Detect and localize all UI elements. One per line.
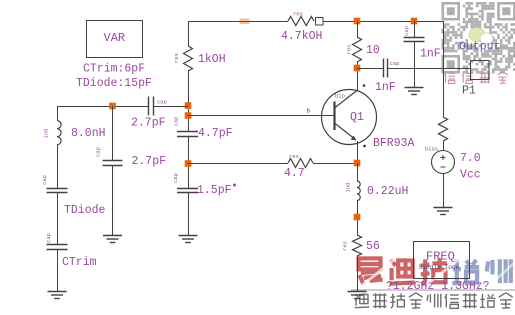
svg-text:BFR93A: BFR93A	[373, 137, 415, 150]
svg-text:4.7: 4.7	[284, 167, 305, 180]
svg-text:TDiode:15pF: TDiode:15pF	[76, 77, 152, 90]
label cap of CTrim	[45, 233, 52, 243]
svg-text:Vcc: Vcc	[460, 169, 481, 182]
junction collector output node	[354, 65, 361, 72]
svg-text:Single-Tone: Single-Tone	[419, 264, 460, 271]
wire 1nF shunt to ground	[414, 42, 416, 88]
label cap of 1nF shunt	[403, 26, 410, 36]
wire 1.5pF to ground	[188, 193, 190, 236]
wire top to 1kOH	[188, 21, 190, 46]
FREQ block box	[414, 242, 470, 279]
label res of 1kOH	[173, 53, 180, 63]
svg-text:bias: bias	[425, 146, 438, 153]
value label 2.7pF coupling	[131, 117, 166, 130]
svg-text:1nF: 1nF	[375, 81, 396, 94]
label bias of V source	[425, 146, 438, 153]
wire emitter net left	[188, 163, 288, 165]
svg-text:cap: cap	[173, 117, 180, 127]
label res of 56	[342, 241, 349, 251]
wire 0.22uH to 56	[357, 201, 359, 236]
capacitor 2.7pF shunt	[103, 161, 123, 166]
capacitor 1.5pF	[177, 189, 198, 193]
resistor 4.7kOH body	[288, 17, 314, 26]
resistor 4.7 body	[288, 159, 313, 168]
wire 1kOH to 4.7pF	[188, 71, 190, 132]
svg-text:CTrim:6pF: CTrim:6pF	[83, 63, 145, 76]
pin dot collector	[363, 84, 366, 87]
wire 10 to collector	[357, 62, 359, 90]
svg-text:2.7pF: 2.7pF	[131, 117, 166, 130]
svg-text:res: res	[293, 11, 303, 18]
wire top net left segment	[188, 21, 288, 23]
capacitor TDiode	[47, 189, 68, 193]
wire bias resistor to source	[443, 141, 445, 151]
ground below Vcc source	[434, 208, 453, 215]
svg-text:Output: Output	[459, 41, 500, 54]
tuning dot after 1.5pF	[233, 184, 236, 187]
junction collector supply	[354, 18, 361, 25]
svg-text:cap: cap	[45, 233, 52, 243]
svg-text:8.0nH: 8.0nH	[71, 127, 106, 140]
voltage source 7.0 Vcc	[432, 151, 455, 174]
junction emitter node	[354, 160, 361, 167]
junction base divider top	[185, 102, 192, 109]
capacitor CTrim	[47, 245, 68, 250]
label cap of 2.7pF coupling	[157, 99, 167, 106]
junction base node	[185, 112, 192, 119]
value label 4.7kOH	[281, 30, 322, 43]
value label BFR93A	[373, 137, 415, 150]
ground below 1nF shunt	[405, 88, 424, 95]
watermark WeChat icon	[469, 28, 493, 44]
resistor 56 body	[353, 235, 362, 256]
wire 2.7pF to base divider	[154, 106, 189, 108]
svg-text:Q1: Q1	[350, 111, 364, 124]
label res of 10	[346, 45, 353, 55]
sweep text	[386, 280, 490, 293]
label ind of 0.22uH	[345, 183, 352, 193]
wire junction to 2.7pF shunt	[112, 106, 114, 161]
ground below 1.5pF	[179, 236, 198, 243]
junction emitter bias node	[354, 214, 361, 221]
transistor Q1 base bar	[333, 102, 335, 131]
svg-text:VAR: VAR	[104, 31, 126, 45]
resistor bias body	[439, 117, 448, 141]
label Vcc	[460, 169, 481, 182]
svg-text:P1: P1	[462, 85, 476, 98]
watermark text 射频和天线设计专家	[355, 293, 513, 309]
watermark text 微信联系	[445, 72, 508, 84]
svg-text:1nF: 1nF	[420, 48, 441, 61]
port P1 symbol	[471, 61, 490, 80]
value label 0.22uH	[367, 185, 408, 198]
watermark QR code	[442, 2, 515, 74]
wire top net right segment	[323, 21, 443, 23]
watermark text 易迪拓培训	[359, 258, 514, 287]
VAR block box	[87, 21, 143, 58]
svg-text:1kOH: 1kOH	[198, 53, 226, 66]
svg-text:cap: cap	[95, 147, 102, 157]
svg-text:cap: cap	[403, 26, 410, 36]
svg-text:?1.2GHz 1.3GHz?: ?1.2GHz 1.3GHz?	[386, 280, 490, 293]
value label 1nF shunt	[420, 48, 441, 61]
label P1	[462, 85, 476, 98]
wire resonator left	[57, 106, 149, 108]
label FREQ	[426, 250, 455, 264]
svg-text:cap: cap	[390, 60, 400, 67]
watermark underline	[351, 289, 515, 291]
svg-text:res: res	[173, 53, 180, 63]
wire base net	[188, 115, 322, 117]
svg-text:res: res	[346, 45, 353, 55]
value label 1nF coupling	[375, 81, 396, 94]
svg-text:bip: bip	[335, 93, 345, 100]
capacitor 4.7pF	[177, 132, 198, 137]
wire to 1nF shunt	[414, 21, 416, 38]
inductor 8.0nH coil	[57, 121, 61, 145]
wire CTrim to ground	[57, 249, 59, 291]
var text TDiode:15pF	[76, 77, 152, 90]
wire output to port	[388, 68, 471, 70]
transistor Q1 collector stroke	[335, 90, 358, 108]
label res of 4.7	[289, 153, 299, 160]
label cap of TDiode	[41, 175, 48, 185]
label VAR	[104, 31, 126, 45]
svg-text:0.22uH: 0.22uH	[367, 185, 408, 198]
svg-text:56: 56	[366, 240, 380, 253]
label cap of 1.5pF	[172, 173, 179, 183]
value label 4.7	[284, 167, 305, 180]
value label 7.0	[460, 152, 481, 165]
wire 56 to ground	[357, 256, 359, 291]
label cap of 2.7pF shunt	[95, 147, 102, 157]
svg-text:7.0: 7.0	[460, 152, 481, 165]
svg-text:CTrim: CTrim	[62, 256, 97, 269]
resistor 10 body	[353, 37, 362, 62]
svg-text:4.7kOH: 4.7kOH	[281, 30, 322, 43]
svg-text:b: b	[307, 108, 311, 115]
label cap of 4.7pF	[173, 117, 180, 127]
wire 4.7pF to 1.5pF	[188, 136, 190, 188]
wire emitter net right	[313, 163, 357, 165]
wire base lead inside Q1	[322, 115, 335, 117]
wire top to 10 resistor	[357, 21, 359, 37]
svg-text:FREQ: FREQ	[426, 250, 455, 264]
label res of 4.7kOH	[293, 11, 303, 18]
svg-text:cap: cap	[172, 173, 179, 183]
svg-text:1.5pF: 1.5pF	[197, 184, 232, 197]
ground below 2.7pF shunt	[103, 236, 122, 243]
junction emitter divider tap	[185, 160, 192, 167]
transistor Q1 circle	[322, 90, 377, 145]
svg-text:cap: cap	[157, 99, 167, 106]
value label 1.5pF	[197, 184, 232, 197]
svg-text:TDiode: TDiode	[64, 204, 106, 217]
svg-text:cap: cap	[41, 175, 48, 185]
svg-text:4.7pF: 4.7pF	[198, 127, 233, 140]
svg-text:10: 10	[366, 44, 380, 57]
value label 8.0nH	[71, 127, 106, 140]
label cap of 1nF coupling	[390, 60, 400, 67]
junction resonator node	[109, 103, 116, 110]
value label 1kOH	[198, 53, 226, 66]
ground below CTrim	[48, 292, 67, 299]
ground below 56	[348, 292, 367, 299]
svg-text:ind: ind	[43, 129, 50, 139]
wire supply drop	[443, 21, 445, 117]
value label 2.7pF shunt	[132, 155, 167, 168]
wire 2.7pF shunt to ground	[112, 165, 114, 235]
capacitor 1nF coupling	[384, 59, 388, 78]
value label 56	[366, 240, 380, 253]
net label Output	[459, 41, 500, 54]
pin label b	[307, 108, 311, 115]
capacitor 1nF shunt	[404, 38, 425, 42]
transistor Q1 emitter stroke with arrow	[335, 123, 357, 141]
label Single-Tone	[419, 264, 460, 271]
inductor 0.22uH coil	[357, 181, 360, 201]
wire 8.0nH to TDiode	[57, 145, 59, 188]
wire source to ground	[443, 174, 445, 208]
wire TDiode to CTrim	[57, 193, 59, 245]
wire emitter to 0.22uH	[357, 163, 359, 181]
pin dot emitter	[363, 145, 366, 148]
value label CTrim	[62, 256, 97, 269]
wire top of 8.0nH	[57, 106, 59, 121]
wire output left	[357, 68, 384, 70]
value label 4.7pF	[198, 127, 233, 140]
junction supply filter	[411, 18, 418, 25]
svg-text:res: res	[289, 153, 299, 160]
label ind of 8.0nH	[43, 129, 50, 139]
value label TDiode	[64, 204, 106, 217]
pin square of resistor 4.7kOH	[316, 18, 324, 26]
capacitor 2.7pF coupling	[149, 97, 154, 116]
wire emitter down	[357, 141, 359, 163]
svg-text:2.7pF: 2.7pF	[132, 155, 167, 168]
designator Q1	[350, 111, 364, 124]
svg-text:res: res	[342, 241, 349, 251]
label bip of Q1	[335, 93, 345, 100]
svg-text:ind: ind	[345, 183, 352, 193]
resistor 1kOH body	[184, 46, 193, 71]
value label 10	[366, 44, 380, 57]
var text CTrim:6pF	[83, 63, 145, 76]
faded junction on top net	[239, 19, 250, 25]
